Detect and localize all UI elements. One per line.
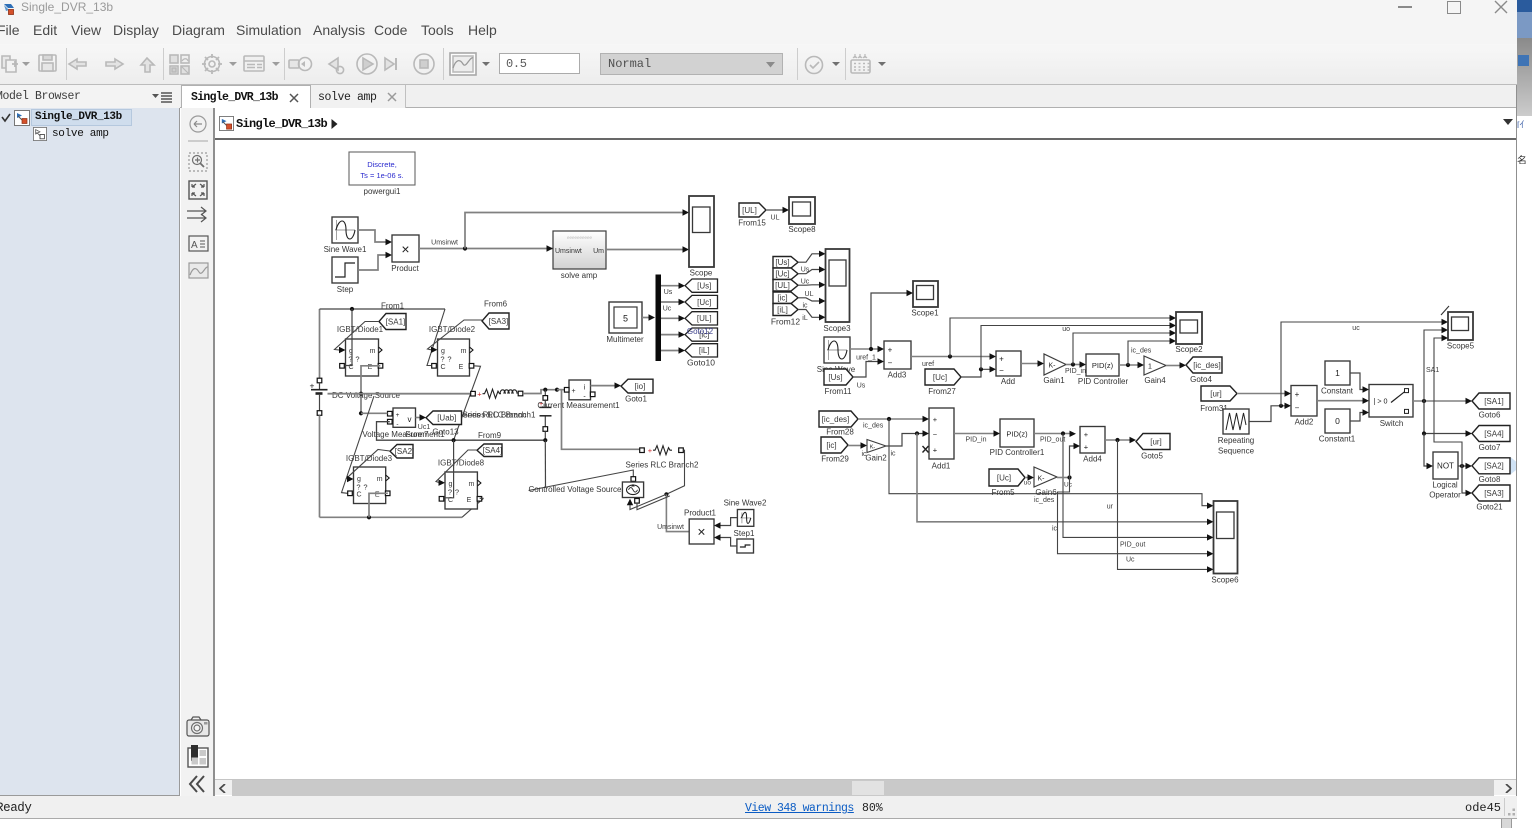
svg-text:uref: uref [922, 361, 934, 368]
svg-text:[ur]: [ur] [1210, 389, 1222, 398]
svg-text:Multimeter: Multimeter [606, 335, 644, 344]
Scope3 block [823, 249, 851, 333]
solve amp tab [311, 85, 406, 108]
Scope2 block [1175, 312, 1203, 354]
svg-text:[SA2]: [SA2] [395, 447, 415, 456]
svg-text:[ic]: [ic] [826, 441, 836, 450]
svg-text:Series RLC Branch: Series RLC Branch [458, 411, 526, 420]
Step block [332, 257, 358, 294]
wire Gain2 ic to Add1 and Scope6 [886, 430, 1214, 532]
svg-text:From11: From11 [825, 387, 853, 396]
svg-text:+: + [1295, 390, 1300, 399]
svg-text:[iL]: [iL] [699, 346, 710, 355]
wire node to Series RLC Branch2 [557, 390, 640, 450]
wire Current Measurement1 io to Goto1 [591, 382, 622, 388]
svg-text:[Uc]: [Uc] [697, 298, 711, 307]
svg-text:From27: From27 [928, 387, 956, 396]
Voltage Measurement1 block [362, 408, 445, 439]
Gain1 block [1043, 354, 1066, 385]
svg-text:Scope6: Scope6 [1211, 576, 1239, 585]
svg-text:DC Voltage Source: DC Voltage Source [332, 391, 401, 400]
svg-text:Step1: Step1 [734, 529, 755, 538]
svg-text:Logical: Logical [1432, 481, 1458, 490]
wire Voltage Measurement1 to Goto13 [416, 414, 431, 431]
svg-text:Add: Add [1001, 377, 1015, 386]
demux bar [656, 275, 662, 362]
wire IGBT1 emitter to node A [359, 366, 380, 416]
wire Add to Gain1 [1021, 360, 1044, 366]
svg-text:Goto5: Goto5 [1141, 452, 1163, 461]
Add3 block [884, 341, 911, 380]
wire Gain4 to Goto4 [1166, 362, 1186, 368]
svg-text:From15: From15 [738, 219, 766, 228]
svg-text:-: - [396, 421, 398, 428]
svg-text:uo: uo [1062, 326, 1070, 333]
wire Product output Umsinwt [419, 209, 689, 251]
IGBT/Diode block IGBT/Diode2 [429, 325, 476, 376]
wire Constant1 to Switch [1350, 409, 1369, 421]
wire node A to Voltage Measurement1 [361, 412, 388, 414]
svg-text:uref_1: uref_1 [856, 355, 876, 362]
Goto6 tag [SA1] [1472, 393, 1510, 420]
svg-text:[io]: [io] [635, 382, 646, 391]
powergui1 block [349, 152, 415, 196]
svg-text:+: + [648, 446, 653, 455]
svg-text:[UL]: [UL] [775, 281, 790, 290]
svg-text:[iL]: [iL] [777, 305, 788, 314]
svg-text:Sequence: Sequence [1218, 447, 1255, 456]
svg-text:uc: uc [1352, 325, 1360, 332]
Controlled Voltage Source block [529, 470, 670, 510]
Goto4 tag [ic_des] [1186, 357, 1222, 384]
svg-text:Add3: Add3 [888, 371, 907, 380]
svg-text:Goto10: Goto10 [687, 358, 715, 368]
wire From27 to Add and Scope2 [961, 322, 1176, 377]
svg-text:[SA4]: [SA4] [1484, 429, 1504, 438]
svg-text:IGBT/Diode3: IGBT/Diode3 [346, 454, 393, 463]
node icon 2 [33, 127, 47, 141]
svg-text:From12: From12 [771, 317, 801, 327]
svg-text:iL: iL [802, 315, 808, 322]
PID Controller block [1078, 354, 1129, 386]
svg-text:K-: K- [1038, 476, 1046, 483]
svg-text:[Us]: [Us] [697, 281, 711, 290]
Goto7 tag [SA4] [1472, 426, 1510, 453]
svg-text:Switch: Switch [1380, 419, 1404, 428]
svg-text:Um: Um [593, 248, 604, 255]
Gain4 block [1144, 356, 1166, 385]
svg-text:Discrete,: Discrete, [367, 160, 397, 169]
svg-text:Ts = 1e-06 s.: Ts = 1e-06 s. [360, 171, 403, 180]
svg-text:PID_in: PID_in [1065, 368, 1086, 375]
Scope1 block [911, 281, 939, 318]
subsystem solve amp [553, 231, 606, 280]
svg-text:A: A [191, 240, 198, 251]
From28 tag [ic_des] [819, 411, 858, 437]
wires From12 to Scope3 [798, 251, 826, 322]
Scope5 block [1441, 306, 1475, 351]
svg-text:Goto13: Goto13 [432, 427, 459, 436]
svg-text:Us: Us [857, 383, 866, 390]
svg-text:v: v [408, 415, 412, 424]
svg-text:5: 5 [623, 314, 628, 324]
svg-text:PID_out: PID_out [1120, 542, 1145, 549]
save [39, 55, 56, 71]
wire Step to Product [358, 252, 392, 270]
wire branch2 to Controlled Voltage Source node [664, 450, 684, 496]
svg-text:m: m [468, 481, 474, 488]
Goto5 tag [ur] [1136, 434, 1170, 461]
wire Step1 to Product1 [714, 534, 737, 546]
svg-text:Umsinwt: Umsinwt [431, 240, 458, 247]
IGBT/Diode block IGBT/Diode3 [346, 454, 393, 504]
wire Voltage Measurement1 minus to bus [377, 422, 548, 443]
svg-text:From5: From5 [991, 488, 1015, 497]
svg-text:?: ? [355, 355, 359, 364]
svg-text:[Uc]: [Uc] [775, 270, 789, 279]
svg-text:[SA1]: [SA1] [1484, 397, 1504, 406]
wire From28 ic_des to Add1 and Scope6 [858, 416, 1214, 509]
svg-text:1: 1 [1335, 368, 1340, 378]
Sine Wave2 block [724, 499, 767, 527]
svg-text:[UL]: [UL] [742, 206, 757, 215]
svg-text:From7: From7 [405, 430, 429, 439]
wire Sine Wave to Add3 [850, 346, 884, 362]
camera [187, 720, 209, 736]
step fwd [385, 58, 394, 70]
svg-text:Us: Us [801, 267, 810, 274]
svg-text:Uc: Uc [1126, 557, 1135, 564]
wire Constant to Switch [1350, 373, 1369, 393]
svg-text:[UL]: [UL] [697, 314, 712, 323]
wire Gain1 uo to PID and Scope2 [1062, 326, 1176, 375]
svg-text:Goto6: Goto6 [1479, 411, 1501, 420]
Current Measurement1 block [537, 380, 620, 410]
svg-text:+: + [396, 412, 400, 419]
NOT Logical Operator block [1429, 452, 1461, 500]
back fwd up [69, 59, 86, 69]
From5 tag [Uc] [989, 469, 1025, 497]
svg-text:PID_out: PID_out [1040, 437, 1065, 444]
Goto8 tag [SA2] [1472, 457, 1521, 484]
svg-text:Uc1: Uc1 [418, 424, 431, 431]
From1 tag [SA1] [379, 302, 406, 330]
From15 tag [UL] [738, 203, 766, 228]
Switch block [1369, 385, 1413, 429]
svg-text:?: ? [455, 488, 459, 497]
wire From15 to Scope8 [766, 207, 789, 222]
svg-text:ic_des: ic_des [863, 423, 884, 430]
stop [414, 54, 434, 74]
wire From9 to IGBT8 gate [436, 450, 477, 486]
svg-text:Controlled Voltage Source: Controlled Voltage Source [529, 485, 623, 494]
svg-text:[SA4]: [SA4] [483, 446, 503, 455]
svg-text:From28: From28 [826, 428, 854, 437]
svg-text:Operator: Operator [1429, 491, 1461, 500]
config list [244, 56, 264, 71]
Scope6 block [1211, 501, 1239, 585]
svg-text:PID Controller: PID Controller [1078, 377, 1129, 386]
wire Gain6 Uc to Add4 and Scope6 [1057, 443, 1214, 564]
svg-text:−: − [933, 430, 938, 439]
IGBT/Diode block IGBT/Diode8 [438, 459, 485, 510]
svg-text:0: 0 [1335, 416, 1340, 426]
svg-text:Uc: Uc [663, 306, 672, 313]
svg-text:Scope5: Scope5 [1447, 342, 1475, 351]
step back [329, 58, 338, 70]
svg-text:+: + [310, 381, 315, 391]
svg-text:[ic]: [ic] [777, 294, 787, 303]
svg-text:ic_des: ic_des [1034, 497, 1055, 504]
wire From1 to IGBT1 gate [335, 322, 380, 354]
wire DC+ top bus [320, 307, 446, 366]
svg-text:m: m [461, 348, 467, 355]
Step1 block [734, 529, 755, 553]
wire diagonal node A to IGBT3 collector [342, 396, 375, 493]
svg-text:[Uab]: [Uab] [437, 414, 456, 423]
wire Repeating Sequence uc to Add2 and Scope5 [1249, 319, 1448, 422]
svg-text:IGBT/Diode8: IGBT/Diode8 [438, 459, 485, 468]
svg-text:UL: UL [805, 291, 814, 298]
svg-text:Goto12: Goto12 [687, 327, 714, 336]
svg-text:+: + [933, 415, 938, 424]
svg-text:?: ? [440, 355, 444, 364]
svg-text:C: C [356, 492, 361, 499]
svg-text:Series RLC Branch2: Series RLC Branch2 [626, 461, 699, 470]
svg-text:m: m [370, 348, 376, 355]
svg-text:NOT: NOT [1437, 462, 1454, 471]
svg-text:×: × [401, 241, 409, 257]
svg-text:ur: ur [1107, 504, 1114, 511]
svg-text:PID(z): PID(z) [1092, 361, 1114, 370]
svg-text:Goto4: Goto4 [1190, 375, 1212, 384]
wire Multimeter to demux [642, 314, 655, 320]
svg-text:Umsinwt: Umsinwt [657, 524, 684, 531]
svg-text:ic_des: ic_des [1131, 348, 1152, 355]
book [188, 748, 208, 767]
From29 tag [ic] [821, 437, 849, 464]
wire Sine Wave1 to Product [358, 230, 392, 245]
Goto tag stack [Us][Uc][UL][ic][iL] Goto10 [685, 279, 718, 368]
window buttons [1398, 6, 1412, 8]
Constant1 block [1319, 409, 1356, 444]
svg-text:E: E [467, 497, 472, 504]
svg-text:Umsinwt: Umsinwt [555, 248, 582, 255]
Add block [996, 351, 1021, 386]
svg-text:+: + [571, 388, 575, 395]
svg-text:1: 1 [1148, 364, 1152, 371]
svg-text:Add2: Add2 [1295, 418, 1314, 427]
svg-text:Uc: Uc [801, 279, 810, 286]
svg-text:Goto1: Goto1 [625, 395, 647, 404]
svg-text:Gain2: Gain2 [865, 454, 887, 463]
wire Add3 uref to Add and Scope2 [911, 315, 1176, 368]
svg-text:×: × [697, 524, 705, 540]
Series RLC Branch2 (R) [626, 446, 699, 470]
wire branch1 to Current Measurement1 [523, 388, 565, 394]
Repeating Sequence block [1218, 409, 1255, 456]
Goto1 tag [io] [621, 379, 653, 403]
svg-text:[ic_des]: [ic_des] [1193, 361, 1221, 370]
active tab [181, 85, 311, 108]
svg-text:Add1: Add1 [932, 462, 951, 471]
svg-text:+: + [999, 355, 1004, 364]
DC Voltage Source [310, 309, 401, 517]
scope [450, 53, 476, 75]
Add2 block [1291, 386, 1317, 427]
wire Sine Wave2 to Product1 [714, 518, 737, 529]
svg-text:+: + [1084, 443, 1089, 452]
svg-text:[Us]: [Us] [775, 258, 789, 267]
svg-text:From9: From9 [478, 431, 502, 440]
PID Controller1 block [990, 419, 1045, 457]
From31 tag [ur] [1200, 386, 1237, 413]
Product block [391, 235, 419, 273]
model browser header [0, 85, 180, 108]
Add4 block [1080, 427, 1105, 464]
svg-text:powergui1: powergui1 [364, 187, 401, 196]
wire Add4 ur to Goto5 and Scope6 [1105, 437, 1214, 573]
wire DC- bottom bus [320, 498, 484, 519]
svg-text:SA1: SA1 [1426, 367, 1439, 374]
svg-text:K-: K- [870, 445, 876, 451]
From9 tag [SA4] [477, 431, 502, 457]
wire From29 to Gain2 [848, 442, 867, 458]
wire uref to Scope1 [871, 290, 913, 349]
wire capacitor node down [544, 440, 546, 488]
play [357, 54, 377, 74]
Normal combo [600, 53, 783, 75]
wire node B to IGBT8 collector [445, 440, 454, 498]
From27 tag [Uc] [925, 369, 961, 396]
svg-text:−: − [999, 366, 1004, 375]
From7 tag [SA2] [390, 445, 414, 459]
wire Add1 to PID Controller1 [954, 430, 1000, 443]
Gain6 block [1034, 467, 1057, 497]
svg-text:[SA3]: [SA3] [1484, 489, 1504, 498]
Constant block [1321, 361, 1354, 396]
Sine Wave block [817, 337, 856, 374]
IGBT/Diode block IGBT/Diode1 [337, 325, 384, 376]
svg-text:UL: UL [771, 215, 780, 222]
From12 tag stack [Us][Uc][UL][ic][iL] [771, 257, 801, 327]
svg-text:Gain1: Gain1 [1043, 376, 1065, 385]
svg-text:?: ? [447, 355, 451, 364]
node icon 1 [14, 110, 30, 126]
svg-text:K-: K- [1049, 363, 1057, 370]
svg-text:Goto21: Goto21 [1476, 503, 1503, 512]
svg-text:−: − [1295, 404, 1300, 413]
svg-text:Constant: Constant [1321, 387, 1354, 396]
wire node A bus [328, 393, 472, 395]
svg-text:Step: Step [337, 285, 354, 294]
svg-text:C: C [440, 364, 445, 371]
svg-text:E: E [459, 364, 464, 371]
chevrons [190, 776, 204, 792]
svg-text:Sine Wave2: Sine Wave2 [724, 499, 767, 508]
wire Add2 to Switch [1317, 398, 1369, 404]
Add1 block [923, 408, 955, 471]
svg-text:Add4: Add4 [1083, 455, 1102, 464]
svg-text:[ic_des]: [ic_des] [822, 415, 850, 424]
svg-text:+: + [888, 346, 893, 355]
wire From5 to Gain6 [1024, 474, 1034, 486]
wire IGBT8 emitter stub [480, 497, 484, 499]
new/open icon [2, 56, 10, 68]
svg-text:Constant1: Constant1 [1319, 435, 1356, 444]
svg-text:Sine Wave1: Sine Wave1 [324, 245, 367, 254]
svg-text:−: − [888, 359, 893, 368]
svg-text:[SA2]: [SA2] [1484, 462, 1504, 471]
Scope8 block [788, 197, 816, 234]
svg-text:Scope: Scope [690, 269, 713, 278]
svg-text:Goto7: Goto7 [1479, 443, 1501, 452]
Multimeter block [606, 302, 644, 344]
svg-text:[Uc]: [Uc] [933, 373, 947, 382]
wire IGBT3 emitter to bottom bus [369, 493, 388, 517]
wire solve amp to Scope [606, 246, 689, 252]
gear [205, 57, 220, 72]
From11 tag [Us] [824, 369, 853, 396]
svg-text:PID(z): PID(z) [1006, 430, 1028, 439]
wire NOT SA2 to Goto8 Goto21 and Scope5 [1434, 335, 1472, 496]
svg-text:PID Controller1: PID Controller1 [990, 448, 1045, 457]
expander [1, 113, 11, 123]
svg-text:eeeeeeeeee: eeeeeeeeee [567, 235, 593, 240]
wire From6 to IGBT2 gate [428, 320, 483, 353]
svg-text:[ur]: [ur] [1150, 437, 1162, 446]
svg-text:Gain4: Gain4 [1144, 376, 1166, 385]
svg-text:ic: ic [890, 451, 896, 458]
Series RLC Branch1 (R-L) [458, 389, 536, 419]
svg-text:m: m [377, 476, 383, 483]
svg-text:Gain6: Gain6 [1035, 488, 1057, 497]
svg-text:Uc: Uc [1064, 482, 1073, 489]
wire node to Product1 output Umsinwt [657, 494, 689, 531]
wire From11 to Add3 [853, 358, 884, 389]
Gain2 block [865, 440, 887, 463]
svg-text:[Us]: [Us] [828, 373, 842, 382]
svg-text:?: ? [448, 488, 452, 497]
svg-text:From6: From6 [484, 300, 508, 309]
svg-text:| > 0: | > 0 [1374, 397, 1388, 406]
svg-text:Scope8: Scope8 [788, 225, 816, 234]
Series RLC Branch (capacitor) [539, 390, 552, 441]
wires demux to Goto tags [661, 283, 685, 354]
svg-text:Repeating: Repeating [1218, 436, 1254, 445]
svg-text:+: + [1084, 430, 1089, 439]
svg-text:PID_in: PID_in [965, 437, 986, 444]
grid/table [853, 54, 867, 58]
wire PID1 PID_out to Add4 and Scope6 [1034, 431, 1214, 549]
wire PID to Gain4 and Scope2 [1119, 338, 1176, 368]
svg-text:Scope1: Scope1 [911, 309, 939, 318]
svg-text:Product: Product [391, 264, 419, 273]
svg-text:[Uc]: [Uc] [997, 473, 1011, 482]
Sine Wave1 block [324, 217, 367, 254]
wire From31 to Add2 [1237, 390, 1291, 396]
Goto21 tag [SA3] [1472, 485, 1510, 512]
wire Switch SA1 to Goto6 Goto7 NOT and Scope5 [1413, 327, 1472, 469]
From6 tag [SA3] [482, 300, 509, 330]
svg-text:[SA3]: [SA3] [489, 317, 509, 326]
svg-text:Product1: Product1 [684, 509, 717, 518]
wire IGBT2 emitter to node B [454, 366, 481, 440]
Scope block [689, 196, 714, 278]
svg-text:uo: uo [1024, 480, 1032, 487]
svg-text:Scope3: Scope3 [823, 324, 851, 333]
svg-text:[SA1]: [SA1] [386, 317, 406, 326]
